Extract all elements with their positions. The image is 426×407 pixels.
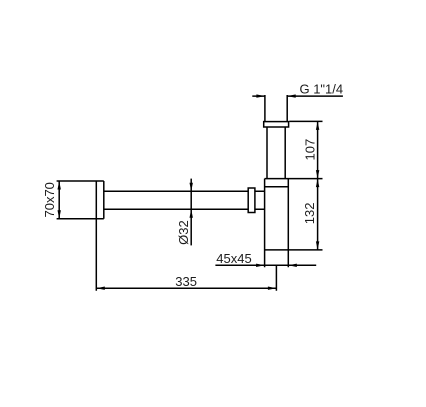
arrow Ø32 down to pipe top xyxy=(190,183,193,192)
arrow 335 left xyxy=(96,287,105,290)
leader lines for G 1"1/4 xyxy=(252,95,343,97)
horizontal pipe Ø32 xyxy=(104,191,248,209)
top collar nut xyxy=(264,122,289,127)
dimension line 107 xyxy=(317,121,319,178)
arrow 132 down xyxy=(316,241,319,250)
top inlet pipe G 1"1/4 xyxy=(265,95,287,122)
compression nut xyxy=(248,188,255,213)
extension lines 335 xyxy=(96,220,276,291)
svg-text:G 1"1/4: G 1"1/4 xyxy=(299,81,343,96)
arrow 45x45 pointing right xyxy=(256,264,265,267)
connector piece xyxy=(255,191,265,209)
arrow 70x70 up xyxy=(58,181,61,190)
arrow 45x45 pointing left xyxy=(288,264,297,267)
arrow G right-side pointing left xyxy=(287,94,296,97)
svg-text:107: 107 xyxy=(302,139,317,161)
arrow 335 right xyxy=(268,287,277,290)
svg-text:45x45: 45x45 xyxy=(216,251,251,266)
dimension line 335 xyxy=(96,287,276,289)
arrow Ø32 up to pipe bottom xyxy=(190,209,193,218)
dimension line Ø32 xyxy=(190,179,192,246)
trap body xyxy=(265,179,323,268)
arrow 132 up xyxy=(316,179,319,188)
svg-text:132: 132 xyxy=(302,203,317,225)
svg-text:70x70: 70x70 xyxy=(42,182,57,217)
extension line top of 107 xyxy=(289,120,322,122)
body bottom line with 45x45 dimension line xyxy=(215,264,316,266)
arrow G left-side pointing right xyxy=(256,94,265,97)
arrow 107 down xyxy=(316,170,319,179)
arrow 107 up xyxy=(316,121,319,129)
wall flange 70x70 xyxy=(57,181,104,219)
arrow 70x70 down xyxy=(58,210,61,219)
vertical down pipe xyxy=(267,127,285,179)
svg-text:Ø32: Ø32 xyxy=(176,220,191,245)
svg-text:335: 335 xyxy=(175,274,197,289)
dimension line 132 xyxy=(317,179,319,250)
